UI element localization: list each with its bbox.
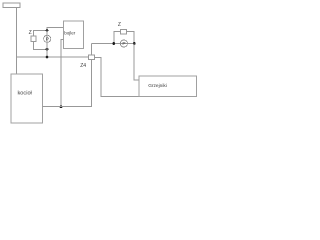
wire: Z4 right to radiators return [95, 57, 140, 96]
pump P (left) [44, 35, 51, 42]
wire: riser to bojler [47, 28, 63, 31]
node: pump top junction [46, 29, 49, 32]
svg-text:Grzejniki: Grzejniki [148, 83, 167, 89]
wire: long horizontal supply to Z4 [17, 56, 89, 58]
wire: vessel down to kociol [16, 8, 18, 75]
svg-text:Z: Z [118, 22, 121, 28]
expansion vessel [3, 3, 20, 8]
node: pump branch on supply line [46, 56, 49, 59]
node: bypass left junction [112, 42, 115, 45]
svg-text:Z: Z [29, 30, 32, 36]
svg-text:Z4: Z4 [80, 63, 86, 69]
wire: right bypass right side [127, 32, 135, 44]
bojler [63, 21, 83, 49]
wire: bojler cold water drop [61, 40, 63, 107]
wire: return line to kociol [43, 106, 92, 108]
valve Z (left) [31, 36, 36, 42]
valve Z4 [89, 55, 95, 60]
node: bypass right junction [133, 42, 136, 45]
valve Z (right) [121, 30, 127, 35]
wire: left valve bottom line [34, 41, 48, 49]
wire: pump branch vertical [46, 31, 48, 58]
node: cold water joins return [60, 105, 63, 108]
pump P (right) [120, 40, 127, 47]
svg-text:kocioł: kocioł [18, 91, 33, 97]
svg-text:bojler: bojler [64, 31, 76, 36]
svg-text:P: P [122, 41, 125, 47]
wire: left block top line [34, 31, 48, 36]
wire: Z4 top riser [90, 44, 92, 56]
wire: Z4 bottom drop [90, 60, 92, 107]
boiler kociol [11, 74, 43, 123]
radiators Grzejniki [139, 76, 196, 96]
wire: right block main line [91, 43, 134, 45]
node: valve/pump bottom junction [46, 48, 49, 51]
svg-text:P: P [46, 37, 49, 43]
wire: supply drop to radiators [134, 44, 139, 80]
wire: right bypass [114, 32, 121, 44]
